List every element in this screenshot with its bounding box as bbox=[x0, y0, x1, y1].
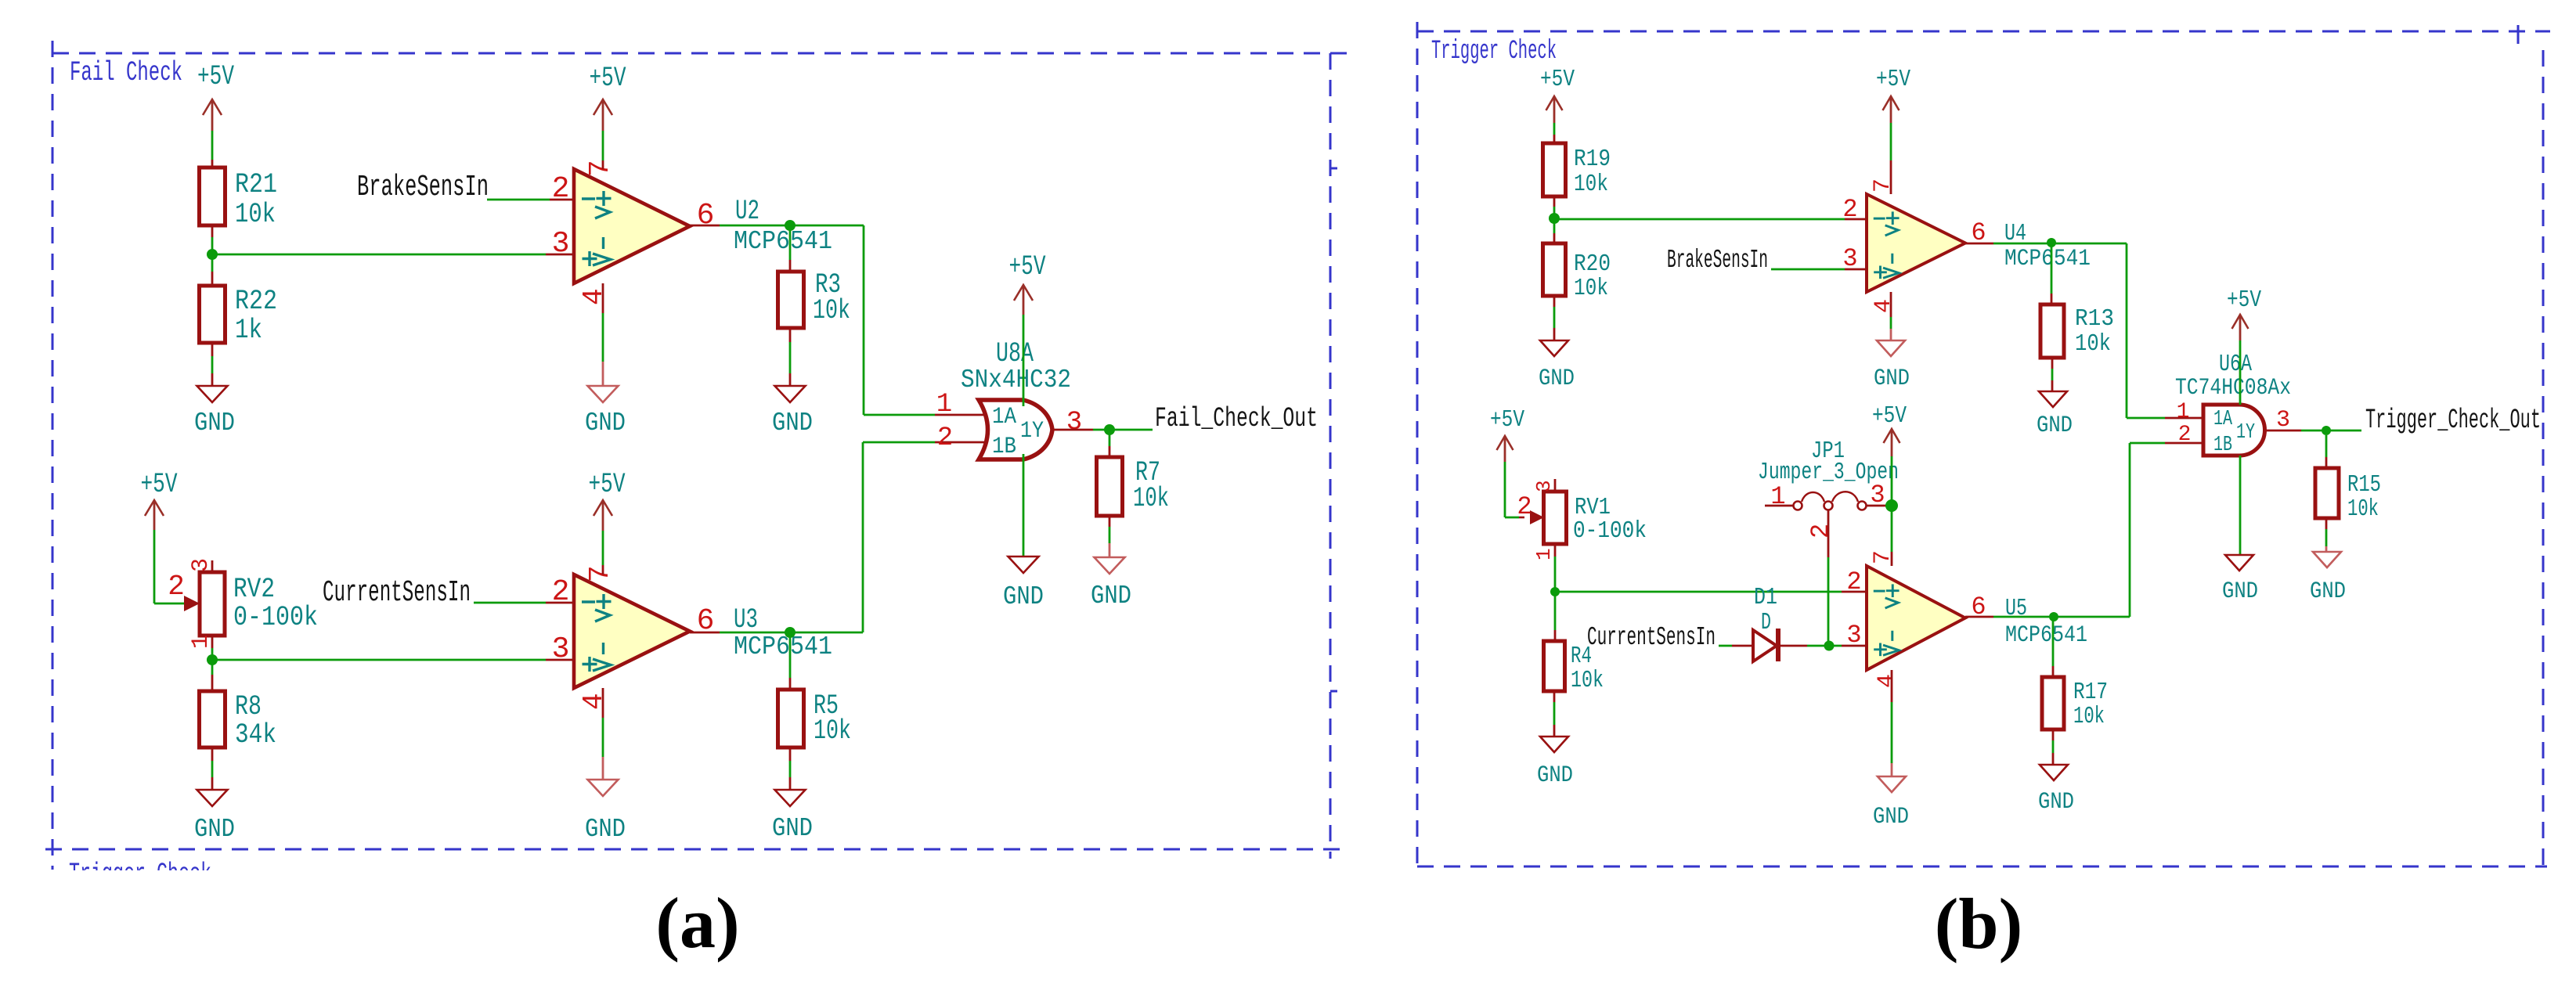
svg-text:R8: R8 bbox=[235, 691, 262, 722]
svg-text:+5V: +5V bbox=[141, 470, 178, 500]
svg-text:10k: 10k bbox=[2347, 495, 2379, 523]
svg-text:34k: 34k bbox=[235, 719, 276, 751]
svg-text:3: 3 bbox=[1842, 244, 1857, 273]
svg-text:10k: 10k bbox=[1574, 171, 1608, 198]
svg-text:7: 7 bbox=[1870, 550, 1896, 564]
svg-text:GND: GND bbox=[1873, 804, 1909, 830]
svg-text:+5V: +5V bbox=[1876, 66, 1910, 93]
svg-text:7: 7 bbox=[584, 160, 616, 177]
svg-text:R20: R20 bbox=[1574, 250, 1611, 278]
svg-text:MCP6541: MCP6541 bbox=[2005, 622, 2087, 649]
svg-text:+5V: +5V bbox=[1540, 66, 1575, 93]
svg-text:10k: 10k bbox=[2073, 703, 2105, 730]
svg-text:2: 2 bbox=[552, 575, 570, 609]
svg-text:7: 7 bbox=[1870, 178, 1896, 193]
svg-text:+5V: +5V bbox=[590, 63, 626, 94]
svg-text:(a): (a) bbox=[655, 883, 739, 963]
svg-text:(b): (b) bbox=[1935, 884, 2022, 964]
svg-text:GND: GND bbox=[772, 409, 813, 438]
svg-text:1Y: 1Y bbox=[1020, 418, 1044, 445]
svg-text:R19: R19 bbox=[1574, 146, 1611, 173]
svg-text:D1: D1 bbox=[1754, 584, 1777, 611]
svg-text:0-100k: 0-100k bbox=[1573, 517, 1647, 545]
svg-text:BrakeSensIn: BrakeSensIn bbox=[357, 171, 489, 204]
svg-text:2: 2 bbox=[168, 571, 185, 603]
svg-text:Trigger_Check_Out: Trigger_Check_Out bbox=[2365, 405, 2541, 436]
svg-text:3: 3 bbox=[188, 558, 215, 572]
svg-text:GND: GND bbox=[194, 409, 235, 438]
svg-text:4: 4 bbox=[578, 693, 610, 710]
svg-text:1: 1 bbox=[1770, 482, 1785, 511]
svg-text:2: 2 bbox=[552, 172, 570, 206]
svg-text:1: 1 bbox=[936, 390, 952, 420]
svg-text:GND: GND bbox=[2038, 789, 2074, 816]
svg-text:1A: 1A bbox=[2213, 408, 2233, 431]
svg-text:GND: GND bbox=[2222, 578, 2258, 605]
svg-text:4: 4 bbox=[578, 288, 610, 305]
svg-text:+5V: +5V bbox=[589, 470, 626, 500]
svg-text:BrakeSensIn: BrakeSensIn bbox=[1667, 246, 1768, 275]
svg-text:0-100k: 0-100k bbox=[233, 602, 318, 633]
svg-text:TC74HC08Ax: TC74HC08Ax bbox=[2175, 375, 2291, 402]
svg-text:1: 1 bbox=[188, 635, 215, 649]
svg-text:3: 3 bbox=[552, 632, 570, 666]
svg-text:MCP6541: MCP6541 bbox=[2004, 246, 2091, 272]
svg-text:GND: GND bbox=[1537, 762, 1573, 789]
svg-text:1B: 1B bbox=[2213, 434, 2232, 457]
svg-text:1k: 1k bbox=[235, 315, 262, 346]
svg-text:+5V: +5V bbox=[197, 62, 234, 92]
svg-text:RV2: RV2 bbox=[233, 574, 275, 605]
svg-text:10k: 10k bbox=[1133, 483, 1169, 514]
svg-text:U8A: U8A bbox=[996, 338, 1034, 369]
svg-text:10k: 10k bbox=[1571, 667, 1604, 694]
svg-text:2: 2 bbox=[937, 423, 953, 453]
svg-text:+5V: +5V bbox=[1872, 402, 1907, 430]
svg-text:GND: GND bbox=[1539, 366, 1575, 392]
svg-text:3: 3 bbox=[1532, 480, 1556, 492]
svg-text:10k: 10k bbox=[1574, 275, 1608, 302]
svg-text:R15: R15 bbox=[2347, 471, 2381, 499]
svg-text:MCP6541: MCP6541 bbox=[734, 632, 832, 661]
svg-text:3: 3 bbox=[1066, 408, 1082, 438]
svg-text:6: 6 bbox=[697, 199, 715, 232]
svg-text:3: 3 bbox=[1846, 621, 1861, 650]
svg-text:CurrentSensIn: CurrentSensIn bbox=[1587, 623, 1716, 652]
svg-text:7: 7 bbox=[584, 565, 616, 582]
svg-text:+5V: +5V bbox=[2227, 286, 2261, 314]
svg-text:D: D bbox=[1761, 609, 1771, 636]
svg-text:Fail Check: Fail Check bbox=[70, 58, 182, 88]
svg-text:R22: R22 bbox=[235, 286, 277, 317]
svg-text:+5V: +5V bbox=[1490, 406, 1524, 434]
svg-text:Fail_Check_Out: Fail_Check_Out bbox=[1155, 403, 1318, 434]
svg-text:GND: GND bbox=[1874, 366, 1910, 392]
svg-text:R21: R21 bbox=[235, 169, 277, 200]
svg-text:10k: 10k bbox=[813, 295, 850, 326]
svg-text:3: 3 bbox=[1870, 481, 1885, 510]
svg-text:U2: U2 bbox=[735, 196, 759, 227]
svg-text:4: 4 bbox=[1874, 674, 1900, 688]
svg-text:CurrentSensIn: CurrentSensIn bbox=[323, 576, 471, 610]
svg-text:1B: 1B bbox=[992, 434, 1016, 460]
svg-text:2: 2 bbox=[1806, 524, 1835, 539]
svg-text:GND: GND bbox=[2037, 412, 2073, 439]
svg-text:R17: R17 bbox=[2073, 679, 2108, 706]
svg-text:U6A: U6A bbox=[2219, 351, 2252, 378]
svg-text:Trigger Check: Trigger Check bbox=[1431, 37, 1557, 67]
svg-text:1: 1 bbox=[1532, 548, 1556, 560]
svg-text:2: 2 bbox=[1846, 567, 1861, 596]
svg-text:2: 2 bbox=[2178, 423, 2192, 447]
svg-text:GND: GND bbox=[2310, 578, 2346, 605]
svg-text:MCP6541: MCP6541 bbox=[734, 227, 832, 256]
svg-text:1: 1 bbox=[2177, 400, 2190, 424]
svg-text:2: 2 bbox=[1517, 492, 1532, 521]
svg-text:GND: GND bbox=[585, 409, 626, 438]
svg-text:GND: GND bbox=[585, 815, 626, 844]
svg-text:GND: GND bbox=[772, 814, 813, 843]
svg-text:3: 3 bbox=[552, 227, 570, 261]
svg-text:1A: 1A bbox=[992, 404, 1016, 430]
svg-text:R13: R13 bbox=[2075, 305, 2114, 333]
svg-text:SNx4HC32: SNx4HC32 bbox=[961, 366, 1071, 394]
svg-text:GND: GND bbox=[1003, 582, 1044, 611]
svg-text:U3: U3 bbox=[734, 604, 758, 636]
svg-text:10k: 10k bbox=[235, 199, 276, 230]
svg-text:10k: 10k bbox=[814, 715, 851, 747]
svg-text:1Y: 1Y bbox=[2236, 421, 2255, 445]
svg-text:10k: 10k bbox=[2075, 330, 2111, 358]
svg-text:GND: GND bbox=[1091, 582, 1131, 611]
svg-text:4: 4 bbox=[1871, 299, 1897, 313]
svg-text:+5V: +5V bbox=[1009, 252, 1046, 283]
svg-text:2: 2 bbox=[1842, 195, 1857, 224]
svg-text:U5: U5 bbox=[2005, 595, 2027, 622]
svg-text:GND: GND bbox=[194, 815, 235, 844]
